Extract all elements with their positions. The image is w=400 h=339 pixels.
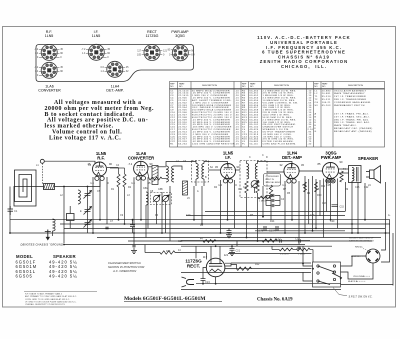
svg-text:6G505: 6G505 — [16, 274, 33, 279]
svg-text:Chassis No. 6A19: Chassis No. 6A19 — [257, 298, 293, 303]
svg-text:WAVE TRAP ADJ.: WAVE TRAP ADJ. — [334, 124, 357, 127]
svg-text:8.4: 8.4 — [321, 184, 325, 188]
svg-text:SOCKET SIDE VIEW OF: SOCKET SIDE VIEW OF — [349, 238, 374, 240]
wire T2 to det grid — [235, 162, 292, 173]
svg-text:C10: C10 — [186, 214, 191, 217]
label converter socket — [38, 85, 61, 93]
svg-text:WAVEMAGNET SWITCH: WAVEMAGNET SWITCH — [334, 104, 365, 107]
wire vertical x146 — [145, 205, 147, 238]
svg-text:OVERALL SENSITIVITY 25 MICROVO: OVERALL SENSITIVITY 25 MICROVOLTS — [25, 303, 65, 306]
socket V5 pwr-amp 3Q5G — [172, 45, 188, 61]
capacitor C21 to ground — [230, 246, 235, 252]
svg-text:1.4: 1.4 — [282, 183, 286, 187]
svg-text:C16: C16 — [355, 186, 360, 189]
svg-text:WAVE TRAP ASSEMBLY: WAVE TRAP ASSEMBLY — [334, 92, 365, 95]
junction — [351, 223, 353, 225]
wire vertical x305 — [304, 176, 306, 233]
gang condenser C8A — [153, 195, 160, 202]
svg-text:C12: C12 — [243, 186, 248, 189]
socket V1 RF 1LN5 — [41, 44, 57, 60]
svg-text:NO: NO — [170, 86, 174, 88]
tube V4 1LH4 det-amp — [284, 163, 299, 183]
wire filament string — [145, 245, 207, 260]
wire T1 to IF grid — [166, 162, 228, 171]
wire vertical x237 — [236, 241, 238, 247]
svg-text:121: 121 — [224, 253, 229, 257]
svg-text:R.F.: R.F. — [97, 156, 104, 161]
svg-text:-7.2: -7.2 — [81, 48, 86, 51]
antenna coil L2 — [44, 184, 55, 190]
svg-text:95-310: 95-310 — [322, 96, 331, 98]
coil L5 — [166, 166, 168, 182]
svg-text:R1: R1 — [170, 144, 174, 146]
svg-text:-7.2: -7.2 — [34, 48, 39, 51]
svg-text:CONV. GRID TO I.F. GRID GAIN 4: CONV. GRID TO I.F. GRID GAIN 40 AT 455 K… — [25, 298, 70, 301]
svg-text:63-234: 63-234 — [178, 144, 187, 146]
svg-text:RED A+: RED A+ — [355, 246, 364, 249]
note condenser built in — [264, 174, 282, 187]
wire vertical x326.5 — [326, 180, 328, 212]
misc component reference labels — [36, 154, 391, 266]
resistor R17 on wire — [203, 240, 216, 243]
svg-text:C21: C21 — [236, 250, 241, 253]
wire vertical x196 — [195, 246, 197, 258]
wire bus y224.0 — [60, 223, 390, 225]
svg-text:NO: NO — [314, 86, 318, 88]
svg-text:CONDENSER GANG ASSEM.: CONDENSER GANG ASSEM. — [334, 101, 371, 104]
svg-text:2.2 MEG: 2.2 MEG — [280, 254, 289, 256]
junction — [92, 232, 94, 234]
wire right edge verticals — [381, 220, 393, 286]
wire vertical x365 — [364, 183, 366, 220]
wire vertical x285 — [284, 181, 286, 233]
svg-text:-7.2: -7.2 — [128, 162, 133, 166]
svg-text:3Q5G: 3Q5G — [175, 34, 185, 38]
svg-text:I.F.: I.F. — [225, 155, 231, 160]
svg-text:1.4: 1.4 — [218, 183, 222, 187]
junction — [133, 232, 135, 234]
junction — [63, 244, 65, 246]
wire vertical x263 — [262, 186, 264, 217]
svg-text:B: B — [315, 116, 317, 118]
svg-text:DET.-AMP.: DET.-AMP. — [106, 89, 123, 93]
tube V1 1LN5 RF — [93, 162, 107, 180]
junction — [312, 230, 314, 232]
resistor R1 box — [67, 206, 75, 228]
junction — [262, 216, 264, 218]
tube V6 117Z6G rectifier — [206, 246, 225, 277]
junction — [201, 223, 203, 225]
svg-text:T1: T1 — [315, 96, 319, 98]
svg-text:RECT.: RECT. — [187, 264, 200, 269]
capacitor C19 — [132, 245, 135, 247]
wire power bus y246.2 — [181, 245, 332, 247]
capacitor C20 to ground — [227, 228, 232, 234]
svg-text:NO: NO — [322, 86, 326, 88]
svg-text:CORD AND PLUG ASSEM.: CORD AND PLUG ASSEM. — [263, 143, 297, 146]
wire vertical x156.5 — [156, 202, 158, 224]
junction — [231, 245, 233, 247]
svg-text:BUILT IN: BUILT IN — [266, 179, 275, 181]
changeover switch note — [108, 261, 144, 273]
oscillator coil L3 — [53, 219, 56, 236]
capacitor C16 — [297, 247, 300, 249]
svg-text:CONVERTER: CONVERTER — [128, 156, 154, 161]
svg-text:C13: C13 — [322, 202, 327, 205]
svg-text:DESCRIPTION: DESCRIPTION — [348, 85, 363, 87]
oscillator padder box — [151, 193, 172, 205]
models table — [16, 254, 76, 259]
svg-text:BROADCAST OSC. (PADDER): BROADCAST OSC. (PADDER) — [334, 127, 373, 130]
svg-text:BATTERY RECEPTACLE: BATTERY RECEPTACLE — [349, 239, 374, 242]
junction — [330, 219, 332, 221]
svg-text:C17A: C17A — [269, 230, 276, 233]
svg-text:2ND I.F. TRANSFORMER: 2ND I.F. TRANSFORMER — [334, 98, 366, 101]
voltage labels around socket at 152.0,52.5 — [137, 49, 168, 56]
svg-text:C13: C13 — [310, 214, 315, 217]
svg-text:SPECIAL BEND: SPECIAL BEND — [266, 181, 282, 184]
wire vertical x246.5 — [246, 193, 248, 238]
svg-text:DENOTES CHASSIS “GROUND”: DENOTES CHASSIS “GROUND” — [21, 243, 65, 247]
wire bus y228.4 — [64, 227, 385, 229]
wire power bus y268.7 — [225, 268, 311, 270]
svg-text:54-110: 54-110 — [250, 144, 259, 146]
svg-text:.25: .25 — [235, 144, 240, 146]
svg-text:C24: C24 — [205, 280, 210, 284]
svg-text:CONDENSER: CONDENSER — [266, 176, 280, 178]
resistor R11b horizontal — [297, 248, 310, 251]
socket V3 IF 1LN5 — [88, 44, 104, 60]
label V2 1LA6 converter — [128, 151, 154, 161]
wire RF plate to T1 — [107, 166, 182, 170]
svg-text:NO: NO — [242, 86, 246, 88]
svg-text:C17B: C17B — [257, 230, 264, 233]
wire bus y211.5 — [205, 211, 345, 213]
wire power bus y272.4 — [181, 271, 311, 273]
svg-text:I.F. GRID TO DET. DIODE PLATE: I.F. GRID TO DET. DIODE PLATE GAIN 60 AT… — [25, 300, 77, 303]
trimmer capacitor C2A — [84, 191, 92, 199]
capacitor C15 on wire — [332, 205, 339, 207]
wire power bus y263.0 — [231, 262, 311, 264]
svg-text:1.4: 1.4 — [90, 181, 94, 185]
junction — [220, 232, 222, 234]
svg-text:R14: R14 — [270, 220, 275, 223]
battery receptacle socket — [366, 249, 380, 263]
wire antenna to RF grid — [10, 161, 100, 243]
svg-text:117Z6G: 117Z6G — [146, 34, 159, 38]
resistor R12 — [237, 267, 252, 270]
svg-text:R.F. STAGE TO ANT. PRIMARY GAI: R.F. STAGE TO ANT. PRIMARY GAIN 4 — [25, 293, 63, 296]
svg-text:DESCRIPTION: DESCRIPTION — [202, 85, 217, 87]
wire vertical x162 — [161, 192, 163, 233]
wire vertical x148 — [147, 177, 149, 228]
wire bus y244.5 — [64, 244, 305, 246]
voltage labels around socket at 180.3,52.8 — [168, 49, 196, 57]
svg-text:C: C — [249, 156, 251, 159]
volume control R7 — [251, 181, 259, 194]
svg-text:C: C — [315, 119, 317, 121]
svg-text:100-21: 100-21 — [322, 102, 331, 104]
wire det to pwr — [299, 169, 348, 173]
wire vertical x352 — [351, 181, 353, 233]
label RF socket — [45, 30, 54, 38]
svg-text:1LN5: 1LN5 — [92, 34, 101, 38]
wire vertical x227.5 — [227, 180, 229, 220]
trimmer capacitor C2B — [84, 207, 92, 215]
svg-text:C: C — [262, 154, 264, 157]
trimmer capacitor C1 — [8, 206, 14, 215]
wire rect plate — [203, 246, 393, 284]
svg-text:PART: PART — [322, 83, 328, 86]
wire vertical x271 — [270, 199, 272, 220]
svg-text:R10: R10 — [317, 194, 322, 197]
IF transformer T2 — [240, 161, 267, 198]
wire bus y241.0 — [128, 240, 372, 242]
wire vertical x194 — [193, 186, 195, 220]
wire vertical x358 — [357, 183, 359, 234]
svg-text:C23: C23 — [295, 238, 300, 241]
svg-text:R12: R12 — [255, 263, 260, 266]
antenna terminal A — [40, 159, 44, 184]
svg-text:C8A: C8A — [143, 187, 148, 190]
svg-text:YELLOW B: YELLOW B — [353, 276, 365, 278]
oscillator coil L8 — [146, 192, 148, 205]
pwr filament cross marks — [326, 179, 334, 182]
svg-text:105: 105 — [137, 53, 142, 56]
wire vertical x220.5 — [220, 180, 222, 233]
junction — [385, 232, 387, 234]
svg-text:DESCRIPTION: DESCRIPTION — [274, 85, 289, 87]
wire R2 R3 drops — [110, 168, 125, 224]
battery receptacle labels — [348, 238, 374, 284]
wire power bus y283.7 — [196, 283, 341, 285]
svg-text:CHICAGO, ILL.: CHICAGO, ILL. — [281, 64, 327, 69]
wire segment R10 R11 — [272, 246, 313, 249]
label RECT socket — [146, 30, 159, 38]
caption models — [124, 296, 293, 303]
svg-text:S.P.S.T. SW. ON V.C.: S.P.S.T. SW. ON V.C. — [349, 295, 373, 298]
svg-text:C20: C20 — [330, 220, 335, 223]
svg-text:C8B: C8B — [158, 188, 163, 191]
label V1 1LN5 RF — [96, 151, 107, 161]
resistor R2 vertical — [117, 174, 120, 187]
parts list table — [170, 82, 385, 148]
junction — [291, 219, 293, 221]
wire bus y237.5 — [97, 237, 381, 239]
socket V2 converter 1LA6 — [41, 62, 57, 78]
resistor R15 vertical — [304, 182, 307, 192]
wave-trap coil L7 — [78, 190, 80, 204]
svg-text:1ST I.F. TRANS. SEC. ADJ.: 1ST I.F. TRANS. SEC. ADJ. — [334, 115, 370, 118]
svg-text:MODEL: MODEL — [16, 254, 33, 259]
resistor R11 vertical — [269, 185, 272, 199]
tube V3 1LN5 IF — [221, 164, 236, 183]
svg-text:R15: R15 — [166, 250, 171, 253]
socket V4 det-amp 1LH4 — [107, 61, 123, 77]
label PWR AMP socket — [171, 30, 189, 38]
svg-text:L2: L2 — [315, 93, 319, 95]
svg-text:T2: T2 — [315, 99, 319, 101]
svg-text:C15: C15 — [326, 184, 331, 187]
wire bus y253.5 — [228, 253, 312, 255]
wire vertical x320 — [319, 180, 321, 216]
svg-text:49-420 5¼: 49-420 5¼ — [49, 274, 78, 279]
svg-text:117: 117 — [137, 49, 141, 52]
voltage labels around socket at 114.8,69.3 — [100, 66, 129, 73]
wire vertical x385.5 — [385, 182, 387, 233]
svg-text:OSCILLATOR ASSEMBLY: OSCILLATOR ASSEMBLY — [334, 89, 367, 92]
resistor R6 horizontal — [258, 196, 271, 199]
junction — [284, 232, 286, 234]
resistor R4 horizontal near converter — [149, 177, 162, 180]
wire vertical x330.5 — [330, 179, 332, 220]
capacitor C7 — [105, 227, 108, 229]
svg-text:PL: PL — [242, 144, 246, 146]
svg-text:C23: C23 — [178, 240, 183, 243]
svg-text:NO: NO — [179, 86, 183, 88]
svg-text:1 MEG: 1 MEG — [298, 254, 305, 256]
output transformer T4 — [349, 166, 362, 183]
label V5 3Q5G pwr amp — [321, 151, 341, 161]
label V4 1LH4 det-amp — [282, 151, 302, 161]
svg-text:D: D — [266, 156, 268, 159]
junction — [118, 219, 120, 221]
svg-text:C1: C1 — [14, 209, 18, 213]
wire vertical x323.5 — [323, 179, 325, 238]
junction — [215, 283, 217, 285]
svg-text:A: A — [315, 113, 317, 116]
voltage labels around socket at 96.3,52.3 — [81, 48, 110, 59]
wire vertical x100 — [99, 180, 101, 220]
wire vertical x134 — [133, 177, 135, 233]
gang condenser C8B — [162, 195, 169, 202]
junction — [87, 186, 89, 188]
wire vertical x292 — [291, 181, 293, 220]
wire vertical x234.5 — [234, 180, 236, 228]
tube V5 3Q5G pwr amp — [323, 163, 339, 183]
junction — [132, 219, 134, 221]
junction — [364, 219, 366, 221]
svg-text:C18: C18 — [296, 248, 301, 251]
trimmer capacitor C2C — [84, 220, 92, 228]
resistor R3 vertical — [123, 174, 126, 187]
svg-text:20-880: 20-880 — [322, 90, 331, 92]
svg-text:BROADCAST ANT. (PADDER): BROADCAST ANT. (PADDER) — [334, 130, 372, 133]
wire converter plate to R4 — [148, 172, 167, 179]
junction — [161, 232, 163, 234]
wire vertical x257.5 — [257, 193, 259, 241]
wire vertical x316 — [315, 179, 317, 228]
svg-text:PART: PART — [179, 83, 185, 86]
wire bus y230.8 — [255, 230, 345, 232]
svg-text:NO: NO — [250, 86, 254, 88]
label V6 117Z6G rect — [185, 259, 202, 269]
resistor R9 vertical — [340, 171, 343, 182]
label V3 1LN5 IF — [223, 151, 234, 161]
svg-text:117: 117 — [203, 255, 208, 259]
svg-text:A.C. OPERATION: A.C. OPERATION — [112, 269, 137, 273]
svg-text:DET.-AMP: DET.-AMP — [282, 155, 302, 160]
svg-text:Models 6G501F-6G501L-6G501M: Models 6G501F-6G501L-6G501M — [124, 296, 206, 302]
junction — [312, 268, 314, 270]
speaker LS — [366, 166, 381, 184]
svg-text:95-311: 95-311 — [322, 99, 331, 101]
svg-text:L1: L1 — [315, 90, 319, 92]
junction — [124, 223, 126, 225]
coil L6 — [172, 166, 174, 182]
wire vertical x202 — [201, 186, 203, 224]
voltage measurement notes — [45, 100, 155, 141]
junction — [257, 240, 259, 242]
ground symbol legend — [45, 230, 51, 241]
svg-text:.40: .40 — [308, 144, 313, 146]
junction — [99, 219, 101, 221]
junction — [140, 219, 142, 221]
junction — [63, 186, 65, 188]
coil L5 hatched (T1 secondary) — [183, 181, 188, 195]
voltage labels around socket at 49.2,70.3 — [34, 66, 63, 77]
svg-text:2ND I.F. TRANS. PRI. ADJ.: 2ND I.F. TRANS. PRI. ADJ. — [334, 118, 369, 121]
svg-text:A-: A- — [388, 214, 391, 217]
voltage labels around socket at 49.2,52.4 — [34, 48, 63, 59]
svg-text:2ND I.F. TRANS. SEC. ADJ.: 2ND I.F. TRANS. SEC. ADJ. — [334, 121, 370, 124]
svg-text:BLACK A: BLACK A — [348, 280, 358, 283]
svg-text:CONVERTER: CONVERTER — [38, 89, 61, 93]
tube V2 1LA6 converter — [134, 161, 148, 180]
tube voltage labels — [88, 160, 343, 259]
wire power bus y289.4 — [181, 288, 341, 290]
svg-text:SPEAKER: SPEAKER — [358, 156, 378, 161]
svg-text:PWR.AMP: PWR.AMP — [321, 155, 341, 160]
wire vertical x141 — [140, 178, 142, 220]
capacitor C10 vertical — [130, 220, 135, 233]
wire vertical x337.5 — [337, 179, 339, 229]
svg-text:1LN5: 1LN5 — [45, 34, 54, 38]
capacitor C23 on wire — [299, 239, 301, 242]
label SPST switch — [333, 288, 347, 296]
junction — [215, 245, 217, 247]
svg-text:1.4: 1.4 — [131, 181, 135, 185]
label det-amp socket — [106, 85, 123, 93]
stage gain notes — [24, 292, 97, 307]
resistor R10 horizontal — [279, 248, 293, 251]
junction — [315, 228, 317, 230]
wire bus y233.0 — [10, 232, 390, 234]
svg-text:1ST I.F. TRANSFORMER: 1ST I.F. TRANSFORMER — [334, 95, 366, 98]
wire vertical x107 — [106, 177, 108, 224]
wire power bus y240.6 — [181, 240, 310, 242]
svg-text:PART: PART — [250, 83, 256, 86]
IF transformer T1 — [192, 161, 209, 187]
resistor R16 vertical — [315, 182, 318, 192]
wire vertical x345.5 — [345, 182, 347, 212]
junction — [302, 263, 304, 265]
wire vertical x170 — [169, 186, 171, 241]
svg-text:20-881: 20-881 — [322, 93, 331, 95]
resistor R13 — [160, 251, 175, 254]
junction — [202, 283, 204, 285]
svg-text:D: D — [315, 122, 317, 124]
wire bus y219.7 — [10, 219, 390, 221]
wire vertical x308.7 — [308, 179, 310, 224]
svg-text:E: E — [315, 125, 317, 127]
junction — [246, 237, 248, 239]
junction — [193, 219, 195, 221]
capacitor cluster C14 C15 — [266, 194, 280, 207]
svg-text:G: G — [315, 131, 317, 133]
capacitor C24 — [201, 276, 206, 284]
socket V6 rect 117Z6G — [144, 45, 160, 61]
